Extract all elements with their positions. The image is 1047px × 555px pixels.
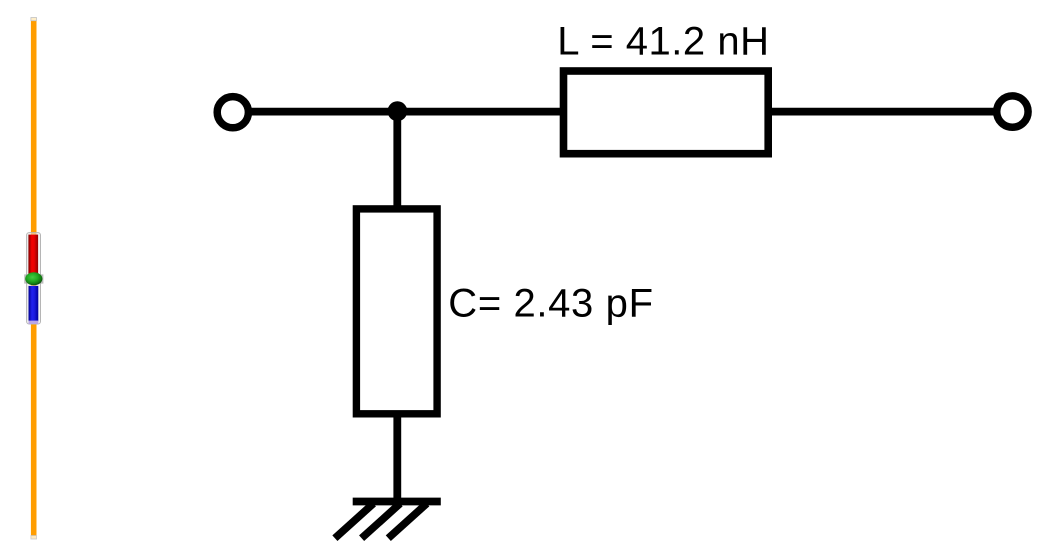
svg-text:L = 41.2 nH: L = 41.2 nH [557,20,769,64]
capacitor C1 [356,209,437,414]
svg-text:C= 2.43 pF: C= 2.43 pF [448,282,653,326]
wire (node A down to capacitor top pin) [393,111,401,209]
source casing (translucent selector box) [27,233,41,324]
inductor L1 [564,71,769,154]
segment S1 (red upper half) [28,235,38,275]
wire (capacitor bottom pin to ground) [393,414,401,502]
wire W0 (orange vertical antenna wire) [31,18,37,540]
port P1 (left terminal circle) [217,97,248,128]
segment S2 (blue lower half) [29,286,39,322]
wire (node A to inductor left pin) [398,108,564,116]
wire (left horizontal: port P1 to node A) [248,108,397,116]
ground [335,502,441,539]
port P2 (right terminal circle) [997,96,1028,127]
wire (inductor right pin to port P2) [768,108,996,116]
node A (junction dot) [388,101,408,121]
feed point (green sphere) [24,272,43,285]
